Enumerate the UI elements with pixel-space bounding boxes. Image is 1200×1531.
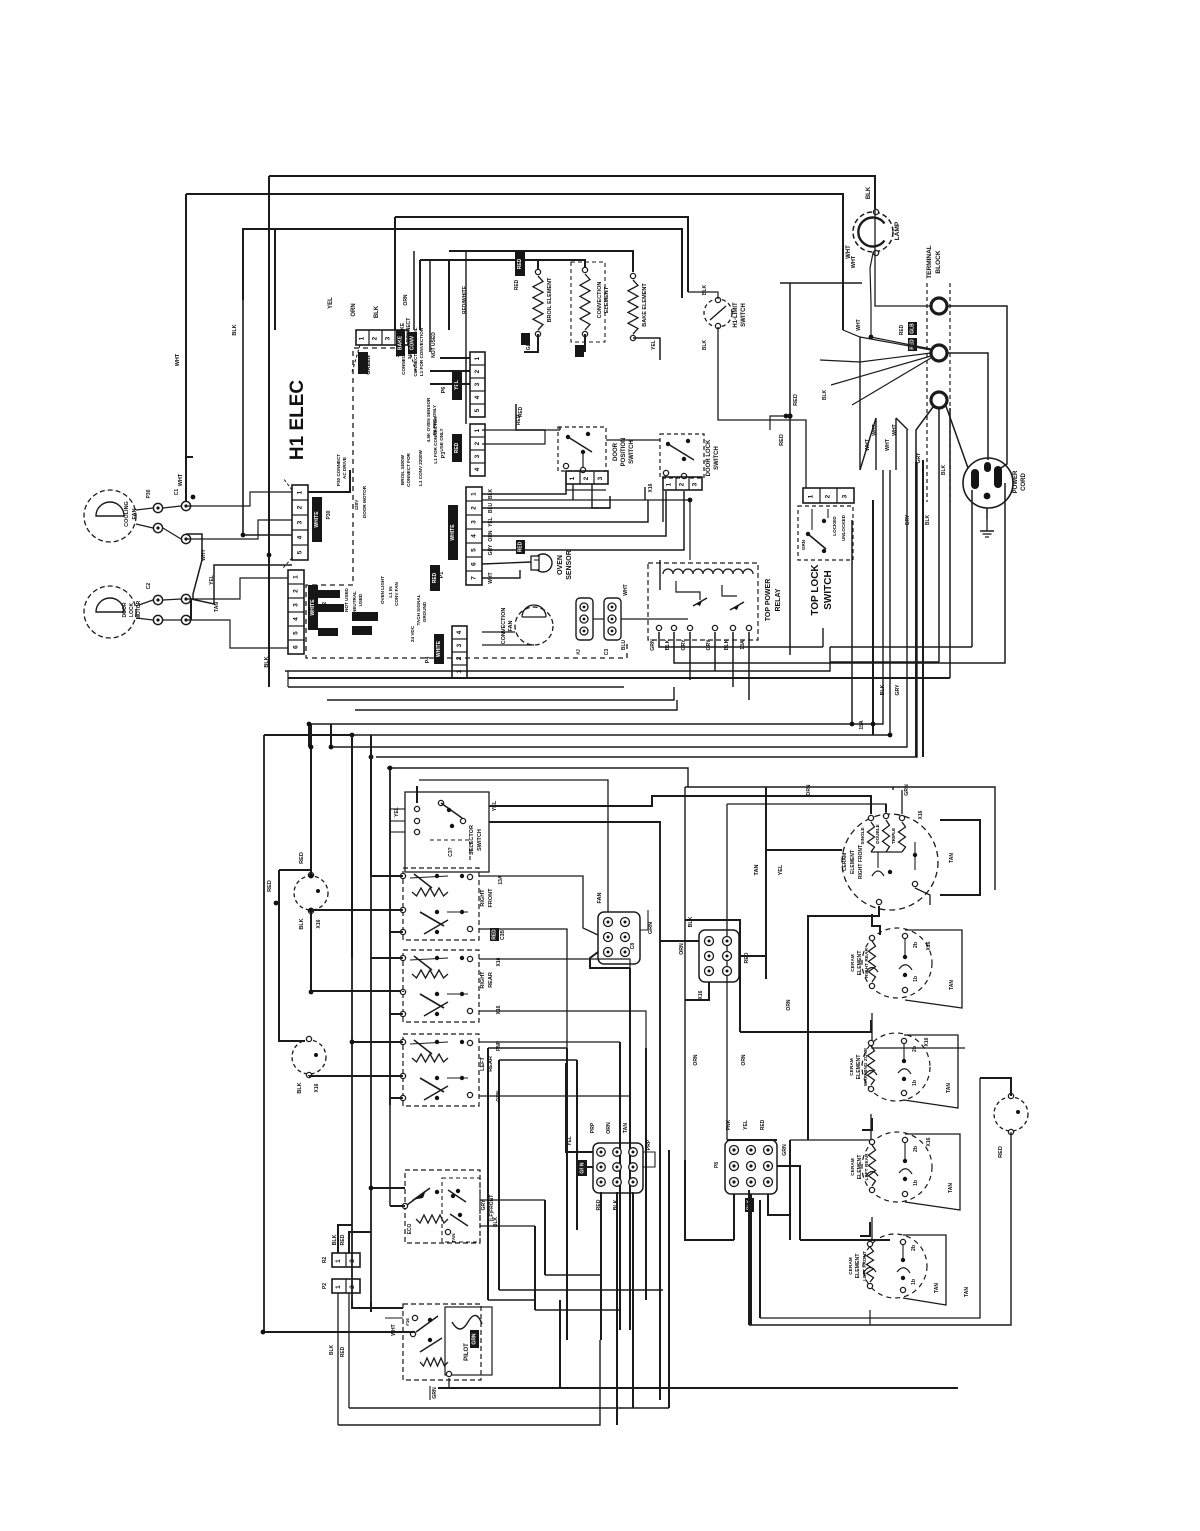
bus wire 5 (309, 470, 883, 724)
svg-text:WHY: WHY (201, 549, 207, 561)
power cord ground (986, 508, 988, 519)
bottom wire 3 (438, 1387, 958, 1389)
svg-text:GRN: GRN (472, 1333, 478, 1345)
bus wire 2 (288, 686, 624, 688)
door position switch S1 (558, 427, 606, 471)
ceram element right rear HE2 (862, 928, 932, 998)
svg-text:WHT: WHT (391, 1324, 397, 1335)
svg-text:H1-LIMIT: H1-LIMIT (733, 302, 739, 328)
svg-text:GRN: GRN (650, 639, 656, 651)
P9 pin 22 (629, 1178, 638, 1187)
svg-text:X16: X16 (314, 1083, 320, 1092)
svg-text:PNK: PNK (726, 1119, 732, 1130)
P9 pin 20 (629, 1148, 638, 1157)
bus wire 1 (285, 647, 830, 671)
connector P4 white (452, 626, 467, 678)
HE1 switch (877, 852, 879, 868)
svg-text:H1 ELEC: H1 ELEC (287, 380, 308, 461)
svg-text:5: 5 (471, 548, 478, 552)
P8 pin 768 (764, 1178, 773, 1187)
junction dots top (241, 533, 246, 538)
svg-text:WHT: WHT (623, 584, 629, 595)
svg-text:YEL: YEL (778, 864, 784, 875)
svg-text:15A: 15A (859, 720, 865, 730)
svg-text:ELEMENT: ELEMENT (604, 286, 610, 313)
svg-text:5: 5 (293, 631, 300, 635)
svg-text:PILOT: PILOT (464, 1343, 470, 1361)
svg-text:X16: X16 (648, 483, 654, 492)
terminal block blobs (908, 322, 917, 335)
convection element R2 (571, 262, 605, 342)
left trunk verticals (243, 300, 292, 535)
top lock switch S4 (798, 506, 853, 560)
svg-text:TOP LOCK: TOP LOCK (810, 564, 821, 616)
svg-text:BLK: BLK (702, 284, 708, 295)
svg-text:13A: 13A (740, 640, 746, 650)
P9 pin 11 (613, 1163, 622, 1172)
connector FAN C8 (598, 912, 640, 964)
br second box (727, 804, 886, 818)
svg-text:LAMP: LAMP (894, 221, 901, 240)
svg-text:SWITCH: SWITCH (714, 446, 720, 470)
svg-text:3: 3 (385, 336, 392, 340)
infinite switch RIGHT REAR S7 (403, 950, 479, 1022)
power cord P30 (963, 458, 1013, 508)
svg-text:BLK: BLK (724, 639, 730, 650)
svg-text:YEL: YEL (743, 1120, 749, 1130)
svg-text:2: 2 (583, 476, 590, 480)
svg-text:1b: 1b (912, 1080, 918, 1086)
top power relay contacts (676, 581, 700, 600)
svg-text:TAN: TAN (934, 1283, 940, 1293)
E1 wires (980, 1078, 1011, 1096)
svg-text:GLB: GLB (910, 323, 916, 334)
svg-text:OVEN LIGHT: OVEN LIGHT (380, 576, 385, 604)
svg-text:YEL: YEL (651, 340, 657, 350)
svg-text:FAN: FAN (597, 892, 603, 903)
selector switch S5 (405, 792, 489, 872)
surface light DS2 wires (310, 724, 312, 875)
svg-text:3: 3 (297, 520, 304, 524)
svg-text:GRY: GRY (895, 684, 901, 696)
wire topright drops (859, 337, 861, 470)
svg-text:WHT: WHT (178, 473, 184, 486)
svg-text:2: 2 (293, 589, 300, 593)
svg-text:P4: P4 (425, 656, 431, 664)
bottom wire 2 (370, 1302, 372, 1312)
svg-text:X16: X16 (316, 919, 322, 928)
svg-text:RED: RED (454, 442, 460, 453)
extra wires top d (662, 491, 664, 522)
svg-text:C3: C3 (604, 649, 610, 656)
P9 pin 10 (613, 1148, 622, 1157)
svg-text:POWER: POWER (1013, 470, 1019, 493)
svg-text:FRONT: FRONT (488, 888, 494, 908)
svg-text:ORN: ORN (693, 1054, 699, 1066)
svg-text:GROUND: GROUND (422, 601, 427, 622)
svg-text:24 VDC: 24 VDC (410, 625, 415, 642)
pilot switch S11 (403, 1304, 481, 1380)
svg-text:ELEMENT: ELEMENT (855, 1253, 861, 1279)
bus wire 9 (387, 768, 688, 787)
C3 wires (593, 618, 604, 620)
svg-text:CERAM: CERAM (850, 954, 856, 972)
svg-text:RIGHT: RIGHT (480, 971, 486, 989)
P1 pin wires (482, 484, 566, 494)
svg-text:1b: 1b (913, 1180, 919, 1186)
svg-text:X16: X16 (926, 1137, 932, 1146)
power cord wires (947, 306, 1007, 468)
HE5 wires (860, 1222, 870, 1236)
wire bake right (633, 338, 660, 360)
svg-text:1: 1 (335, 1285, 342, 1289)
wire gry blk drop (915, 462, 917, 757)
svg-text:3: 3 (692, 482, 699, 486)
svg-text:USED: USED (358, 593, 363, 606)
svg-text:RED: RED (517, 258, 523, 269)
lamp wires (870, 253, 873, 303)
svg-text:WHT: WHT (175, 353, 181, 366)
P8 wires (733, 1194, 735, 1240)
svg-text:SINGLE: SINGLE (860, 827, 865, 844)
wire relay to bus (659, 632, 823, 647)
svg-text:WHITE: WHITE (450, 524, 456, 541)
svg-text:2b: 2b (913, 1146, 919, 1152)
svg-text:1: 1 (335, 1259, 342, 1263)
svg-text:4: 4 (474, 395, 481, 399)
extra board blobs (396, 330, 405, 356)
bl right verticals (487, 1048, 489, 1300)
svg-text:3: 3 (842, 494, 849, 498)
wire element tops (449, 260, 538, 330)
svg-text:C2: C2 (146, 583, 152, 590)
svg-text:5: 5 (297, 550, 304, 554)
svg-text:CERAM: CERAM (848, 1257, 854, 1275)
selector wires (416, 786, 418, 803)
svg-text:ELEMENT: ELEMENT (856, 1054, 862, 1080)
wire element bottoms (524, 334, 538, 352)
br outer box top (685, 787, 995, 890)
svg-text:PRP: PRP (590, 1122, 596, 1133)
wires lug3 down (938, 408, 940, 662)
svg-text:BLK: BLK (299, 918, 305, 929)
connector P2 white (288, 570, 304, 654)
svg-text:LEFT REAR: LEFT REAR (864, 1153, 870, 1180)
P8 pin 751 (747, 1146, 756, 1155)
wire convection feed (420, 260, 585, 270)
pilot wires (264, 1331, 415, 1333)
svg-text:L1 CONV 2200W: L1 CONV 2200W (418, 449, 423, 485)
svg-text:4: 4 (297, 535, 304, 539)
svg-text:P30 CONNECT: P30 CONNECT (336, 454, 341, 486)
svg-text:RIGHT: RIGHT (480, 889, 486, 907)
ECO switch S9 (405, 1170, 480, 1243)
svg-text:RED: RED (518, 406, 524, 417)
svg-text:1: 1 (293, 575, 300, 579)
svg-text:TERMINAL: TERMINAL (926, 245, 933, 279)
HE4 wires (862, 1118, 872, 1130)
svg-text:7: 7 (471, 576, 478, 580)
wires P7 to board (308, 470, 350, 492)
svg-text:BLOCK: BLOCK (935, 250, 942, 273)
svg-text:1: 1 (474, 428, 481, 432)
door lock wires (606, 439, 660, 441)
svg-text:RED: RED (518, 541, 524, 552)
svg-text:WHT: WHT (851, 255, 857, 268)
svg-text:BLK: BLK (374, 305, 380, 318)
svg-text:2: 2 (372, 336, 379, 340)
svg-text:BROIL ELEMENT: BROIL ELEMENT (547, 277, 553, 322)
svg-text:SENSOR: SENSOR (566, 550, 573, 580)
connector GREEN (356, 330, 408, 345)
svg-text:ELEMENT: ELEMENT (857, 950, 863, 976)
svg-text:WHT: WHT (885, 438, 891, 451)
P9 pin 00 (597, 1148, 606, 1157)
board fine blobs (352, 612, 378, 621)
door lock motor M3 (84, 586, 136, 638)
svg-text:X16: X16 (924, 1037, 930, 1046)
svg-text:LEFT: LEFT (480, 1056, 486, 1070)
P9 pin 12 (613, 1178, 622, 1187)
svg-text:2: 2 (349, 1285, 356, 1289)
P8 pin 734 (730, 1162, 739, 1171)
svg-text:ORN: ORN (679, 943, 685, 955)
wire top bus 1 (BLK to lamp) (269, 176, 875, 209)
terminal block lug 2 (931, 345, 947, 361)
P2 wires (338, 1225, 352, 1253)
bake element R3 (630, 273, 635, 278)
svg-text:ECO: ECO (407, 1223, 413, 1234)
svg-text:C3?: C3? (448, 847, 454, 856)
svg-text:GRY: GRY (916, 452, 922, 463)
svg-text:4: 4 (474, 467, 481, 471)
svg-text:BLK: BLK (925, 514, 931, 525)
svg-text:LOCK: LOCK (129, 603, 135, 618)
left front switch S10 (442, 1178, 480, 1242)
cooling fan motor M2 (84, 490, 136, 542)
svg-text:2: 2 (474, 441, 481, 445)
infinite switch LEFT REAR S8 (403, 1034, 479, 1106)
svg-text:4: 4 (471, 534, 478, 538)
bus wire 4 (355, 700, 677, 710)
svg-text:3: 3 (293, 603, 300, 607)
P9 wires (600, 1192, 602, 1340)
connector P7 white (292, 485, 308, 560)
extra wires top b (465, 355, 467, 424)
svg-text:2: 2 (474, 369, 481, 373)
bl right mesh (488, 1047, 567, 1049)
door lock connector (663, 477, 702, 490)
svg-text:1: 1 (474, 356, 481, 360)
br bottom wires (685, 1160, 734, 1240)
svg-text:RED: RED (492, 929, 498, 940)
svg-text:WHT: WHT (856, 319, 862, 330)
svg-text:1b: 1b (913, 976, 919, 982)
svg-text:BAKE ELEMENT: BAKE ELEMENT (642, 283, 648, 327)
svg-text:GRY: GRY (481, 1199, 487, 1210)
svg-text:3: 3 (474, 454, 481, 458)
svg-text:SWITCH: SWITCH (741, 303, 747, 327)
svg-text:1: 1 (359, 336, 366, 340)
extra fan lines (860, 418, 876, 470)
svg-text:SWITCH: SWITCH (477, 829, 483, 851)
J6 wires (660, 940, 699, 942)
svg-text:WHITE: WHITE (314, 511, 320, 528)
svg-text:CORD: CORD (1021, 473, 1027, 491)
br extra (892, 787, 894, 790)
svg-text:X16: X16 (926, 941, 932, 950)
svg-text:L1 IN: L1 IN (388, 586, 393, 598)
svg-text:ORN: ORN (403, 294, 409, 306)
svg-text:RED: RED (299, 852, 305, 864)
svg-text:ORN: ORN (786, 999, 792, 1011)
oven sensor RT1 (534, 554, 552, 572)
P8 pin 734 (730, 1146, 739, 1155)
svg-text:COOLING: COOLING (124, 501, 130, 527)
svg-text:GRN: GRN (648, 922, 654, 934)
svg-text:ELEMENT: ELEMENT (850, 850, 856, 874)
svg-text:LOCKED: LOCKED (832, 516, 837, 536)
yellow connector wires (440, 357, 470, 359)
svg-text:RED: RED (514, 279, 520, 290)
bl extra mesh2 (389, 809, 391, 1206)
svg-text:ORN: ORN (741, 1054, 747, 1066)
svg-text:GRN: GRN (432, 1387, 438, 1399)
svg-text:REAR: REAR (488, 972, 494, 988)
svg-text:6: 6 (471, 562, 478, 566)
wire top bus 2 (186, 194, 843, 330)
svg-text:YEL: YEL (328, 297, 334, 309)
svg-text:CERAM: CERAM (850, 1158, 856, 1176)
svg-text:P8: P8 (714, 1162, 720, 1168)
svg-text:P30: P30 (146, 489, 152, 498)
bl right mesh2 (535, 1309, 620, 1311)
svg-text:4: 4 (293, 617, 300, 621)
svg-text:AC DRIVE: AC DRIVE (342, 457, 347, 479)
svg-text:FAN: FAN (508, 620, 514, 631)
svg-text:SWITCH: SWITCH (823, 570, 834, 609)
bus right drops (822, 628, 824, 647)
svg-text:BLK: BLK (822, 389, 828, 400)
svg-text:MOTOR: MOTOR (136, 600, 142, 619)
bl extra mesh (311, 909, 403, 911)
connector P2b (332, 1279, 360, 1293)
svg-text:WHT: WHT (892, 424, 898, 435)
svg-text:ELEMENT: ELEMENT (857, 1154, 863, 1180)
svg-text:3: 3 (597, 476, 604, 480)
ceram element warming HE3 (862, 1033, 930, 1101)
svg-text:WHITE: WHITE (310, 599, 316, 616)
svg-text:2: 2 (679, 482, 686, 486)
P8 pin 768 (764, 1162, 773, 1171)
svg-text:SELECTOR: SELECTOR (469, 825, 475, 855)
HE1 resistors (868, 815, 873, 820)
cooling fan wires (136, 508, 153, 510)
svg-text:RED: RED (432, 572, 438, 583)
svg-text:3: 3 (471, 520, 478, 524)
top lock connector (803, 488, 854, 503)
br mid vertical (765, 787, 767, 979)
connector P1 white (466, 487, 482, 585)
svg-text:BLK: BLK (329, 1344, 335, 1355)
svg-text:120V: 120V (354, 499, 359, 511)
warmer lamp E1 (994, 1097, 1028, 1131)
pilot lamp DS4 (445, 1307, 492, 1375)
svg-text:NOT USED: NOT USED (431, 332, 437, 358)
svg-text:ORN: ORN (351, 303, 357, 316)
svg-text:X16: X16 (698, 990, 704, 999)
door lock motor terminals (153, 595, 162, 604)
svg-text:BLK: BLK (880, 684, 886, 695)
surface light DS3 (292, 1040, 326, 1074)
elem labels dark (521, 333, 530, 345)
svg-text:CONV: CONV (410, 335, 416, 350)
eco wires (371, 1187, 405, 1189)
svg-text:TAN: TAN (623, 1123, 629, 1134)
LR switch wires (479, 1041, 620, 1043)
svg-text:P30: P30 (326, 510, 332, 519)
svg-text:1: 1 (808, 494, 815, 498)
svg-text:RELAY: RELAY (775, 588, 782, 611)
bus wire 6 (352, 470, 890, 735)
connector P8 (725, 1140, 777, 1194)
svg-text:TAN: TAN (946, 1083, 952, 1093)
P9 pin 02 (597, 1178, 606, 1187)
top power relay coil (663, 569, 753, 574)
HE2 wires (872, 914, 880, 935)
convection fan M1 (515, 607, 553, 645)
junction dots bl (309, 874, 314, 879)
RR switch wires (479, 959, 630, 968)
svg-text:WARMING ZONE: WARMING ZONE (863, 1047, 869, 1086)
broil element R1 (535, 269, 540, 274)
svg-text:POSITION: POSITION (621, 438, 627, 467)
ceram element left rear HE4 (862, 1132, 932, 1202)
svg-text:#J: #J (576, 649, 582, 655)
svg-text:TOP POWER: TOP POWER (765, 579, 772, 622)
svg-text:X16: X16 (918, 810, 924, 819)
door lock switch S2 (660, 434, 704, 478)
extra wires top a (413, 251, 415, 330)
svg-text:TAN: TAN (949, 980, 955, 990)
svg-text:CONVECTION: CONVECTION (597, 282, 603, 319)
svg-text:CONV FAN: CONV FAN (394, 581, 399, 605)
svg-text:GRN: GRN (801, 539, 806, 550)
H1-limit switch S3 (704, 299, 732, 327)
bus wire 8 (376, 462, 917, 757)
door lock motor wires (136, 600, 153, 606)
svg-text:GRY: GRY (681, 639, 687, 651)
svg-text:1b: 1b (911, 1279, 917, 1285)
svg-text:UNLOCKED: UNLOCKED (841, 514, 846, 541)
junction dots bus (350, 733, 355, 738)
svg-text:P3: P3 (441, 452, 447, 459)
P8 pin 768 (764, 1146, 773, 1155)
convection fan wires (482, 631, 515, 633)
wires fan to lug2 (843, 330, 931, 350)
P9 pin 21 (629, 1163, 638, 1172)
svg-text:BLK: BLK (866, 186, 872, 199)
wires to terminal lug1 (875, 209, 931, 306)
svg-text:1: 1 (666, 482, 673, 486)
H1-limit wires (688, 292, 718, 299)
ceram element right front HE1 (842, 814, 938, 910)
svg-text:SWITCH: SWITCH (629, 440, 635, 464)
svg-text:USE ONLY: USE ONLY (439, 428, 444, 451)
svg-text:BLK: BLK (702, 339, 708, 350)
svg-text:DOOR MOTOR: DOOR MOTOR (362, 485, 367, 518)
svg-text:CONNECT FOR: CONNECT FOR (406, 452, 411, 486)
